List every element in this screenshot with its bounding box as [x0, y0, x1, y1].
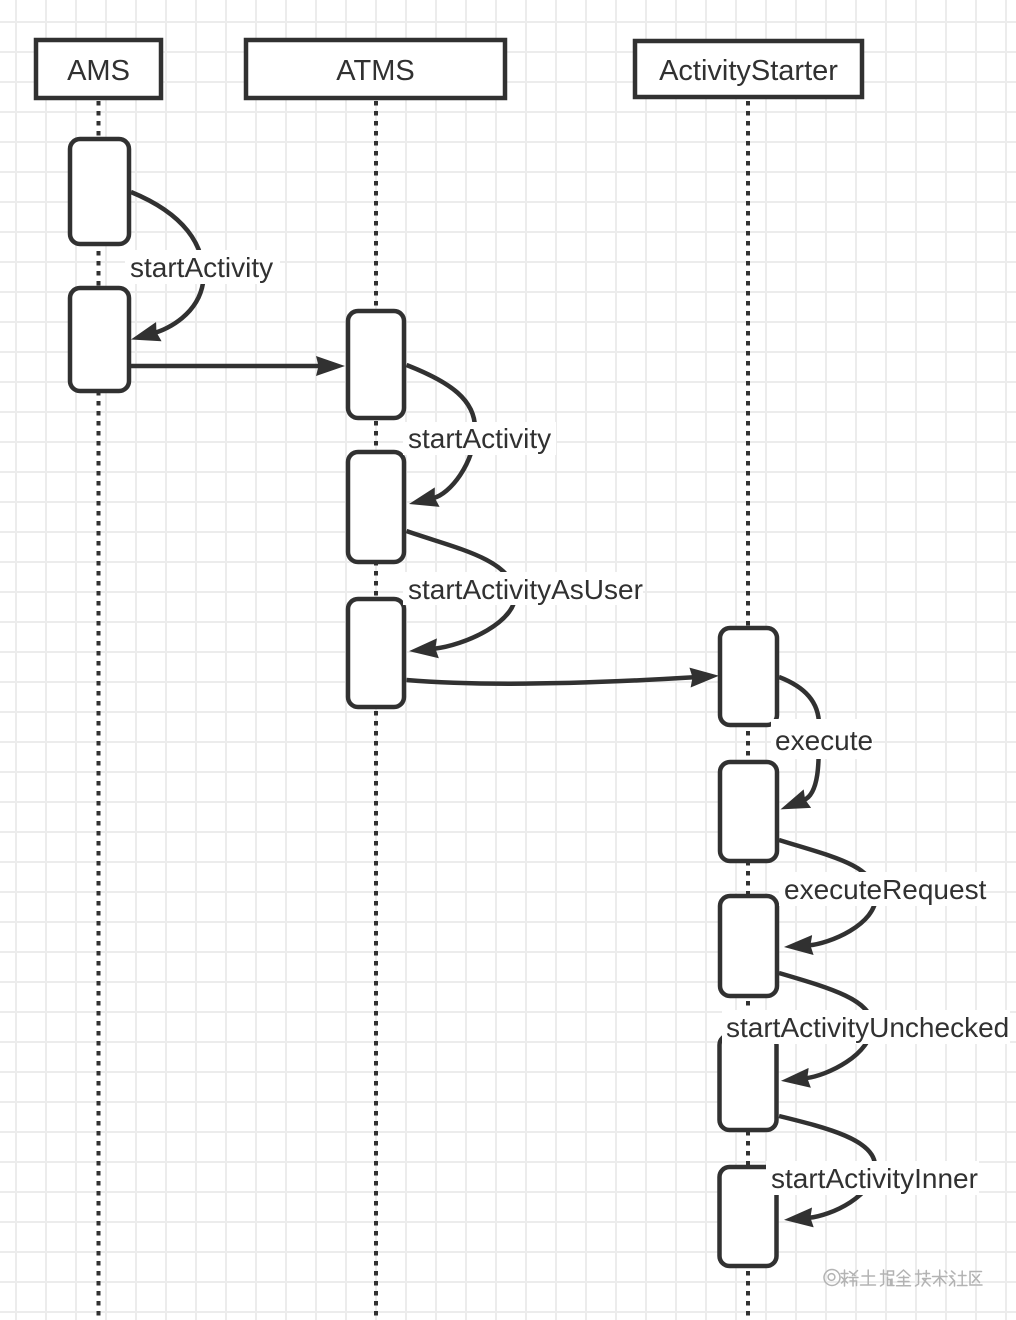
activation ActivityStarter 5	[720, 1167, 777, 1266]
svg-text:ActivityStarter: ActivityStarter	[659, 55, 838, 87]
arrow self-call ActivityStarter execute	[779, 677, 819, 800]
掘	[881, 1270, 895, 1286]
actor box AMS	[36, 40, 161, 98]
arrow self-call ActivityStarter startActivityUnchecked	[779, 973, 872, 1078]
svg-text:executeRequest: executeRequest	[784, 874, 987, 905]
svg-text:startActivityAsUser: startActivityAsUser	[408, 574, 643, 605]
svg-text:execute: execute	[775, 725, 873, 756]
actor box ATMS	[246, 40, 505, 98]
label startActivityUnchecked	[722, 1010, 1010, 1044]
label executeRequest	[779, 872, 987, 906]
activation ActivityStarter 1	[720, 628, 777, 725]
lifeline ATMS	[374, 101, 378, 1320]
lifeline ActivityStarter	[746, 101, 750, 1320]
label startActivityInner	[766, 1161, 979, 1195]
稀	[841, 1270, 858, 1286]
label startActivity (AMS)	[125, 250, 280, 284]
术	[933, 1270, 948, 1286]
actor box ActivityStarter	[635, 41, 862, 97]
activation ATMS 3	[348, 599, 404, 707]
arrow self-call ATMS startActivity	[407, 365, 476, 498]
svg-text:startActivityUnchecked: startActivityUnchecked	[726, 1012, 1009, 1043]
arrow self-call ActivityStarter executeRequest	[779, 840, 876, 945]
svg-text:startActivity: startActivity	[130, 252, 273, 283]
svg-text:AMS: AMS	[67, 55, 130, 87]
svg-text:startActivity: startActivity	[408, 423, 551, 454]
activation ActivityStarter 2	[720, 762, 777, 861]
activation AMS 2	[70, 288, 129, 391]
activation ATMS 1	[348, 311, 404, 418]
社	[950, 1271, 968, 1286]
土	[861, 1270, 876, 1285]
svg-text:startActivityInner: startActivityInner	[771, 1163, 978, 1194]
activation AMS 1	[70, 139, 129, 244]
区	[970, 1272, 982, 1286]
svg-text:ATMS: ATMS	[336, 55, 414, 87]
arrow self-call AMS startActivity	[131, 192, 203, 333]
arrow ATMS to ActivityStarter	[407, 677, 695, 683]
activation ActivityStarter 3	[720, 896, 777, 996]
activation ActivityStarter 4	[720, 1035, 777, 1130]
lifeline AMS	[97, 101, 101, 1320]
label startActivityAsUser	[403, 572, 643, 605]
label startActivity (ATMS)	[403, 422, 556, 455]
activation ATMS 2	[348, 452, 404, 562]
arrow self-call ActivityStarter startActivityInner	[779, 1116, 875, 1218]
label execute	[771, 719, 873, 759]
arrow self-call ATMS startActivityAsUser	[407, 531, 516, 649]
技	[916, 1270, 931, 1286]
金	[897, 1270, 911, 1286]
arrow AMS to ATMS	[131, 364, 320, 369]
watermark @稀土掘金技术社区 (drawn glyphs)	[824, 1270, 982, 1287]
